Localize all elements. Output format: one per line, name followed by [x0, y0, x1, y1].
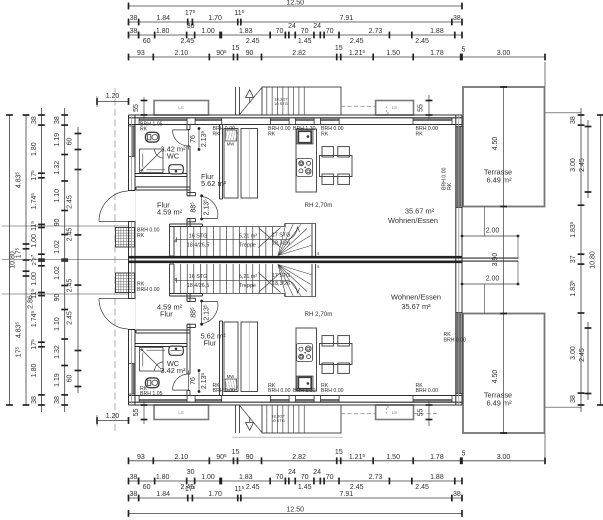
- svg-text:Flur: Flur: [204, 339, 217, 348]
- dim 12.50 bottom: [129, 513, 463, 515]
- left chain C: [25, 115, 27, 405]
- svg-text:60: 60: [143, 38, 151, 45]
- dim 76 / 2.13 upper: [198, 129, 200, 150]
- entrance opening cutouts: [128, 191, 136, 221]
- svg-text:LS: LS: [392, 105, 398, 110]
- svg-text:6.49 m²: 6.49 m²: [486, 399, 512, 408]
- svg-text:55: 55: [133, 409, 140, 417]
- svg-text:2.45: 2.45: [579, 158, 586, 172]
- svg-text:24: 24: [313, 469, 321, 476]
- svg-text:38: 38: [570, 395, 577, 403]
- dim 55 top-right: [428, 95, 430, 119]
- svg-text:4.50: 4.50: [492, 137, 499, 151]
- svg-text:16 STG: 16 STG: [189, 274, 208, 280]
- svg-text:2.45: 2.45: [350, 484, 364, 491]
- svg-text:90: 90: [54, 294, 61, 302]
- svg-text:1.20: 1.20: [106, 413, 120, 420]
- svg-text:1.83: 1.83: [239, 28, 253, 35]
- svg-text:1.20: 1.20: [106, 93, 120, 100]
- terrace dim line: [503, 87, 505, 433]
- svg-text:38: 38: [130, 491, 138, 498]
- bottom wall faces: [129, 404, 463, 406]
- svg-text:5: 5: [462, 450, 466, 457]
- right chain E2: [587, 120, 589, 198]
- svg-text:70: 70: [276, 474, 284, 481]
- svg-text:17 STG: 17 STG: [272, 233, 291, 239]
- svg-text:1.32: 1.32: [54, 161, 61, 175]
- svg-text:3.00: 3.00: [570, 346, 577, 360]
- svg-text:BRH 0.00: BRH 0.00: [321, 388, 344, 394]
- svg-text:38: 38: [31, 116, 38, 124]
- svg-text:1.00: 1.00: [31, 272, 38, 286]
- svg-text:38: 38: [570, 116, 577, 124]
- svg-text:2.45: 2.45: [350, 38, 364, 45]
- svg-text:RH 2,70m: RH 2,70m: [305, 202, 333, 209]
- eaves dashed line bottom extra: [414, 413, 439, 415]
- svg-text:60: 60: [67, 138, 74, 146]
- svg-text:10 STG: 10 STG: [271, 418, 285, 423]
- apron line below exterior stair: [232, 436, 343, 438]
- svg-text:RK: RK: [447, 182, 453, 190]
- dim 12.50 top: [129, 5, 463, 7]
- svg-text:1.80: 1.80: [31, 363, 38, 377]
- svg-text:2.45: 2.45: [246, 484, 260, 491]
- svg-text:4.50: 4.50: [492, 370, 499, 384]
- dim chain top row3: [129, 34, 463, 36]
- svg-text:1.80: 1.80: [156, 474, 170, 481]
- svg-text:18,3/26: 18,3/26: [272, 281, 290, 287]
- svg-text:2.45: 2.45: [415, 484, 429, 491]
- dim chain bottom row2 lower: [138, 478, 140, 485]
- svg-text:BRH 0.00: BRH 0.00: [444, 338, 467, 344]
- svg-text:MW: MW: [227, 142, 234, 147]
- svg-text:3.42 m²: 3.42 m²: [160, 366, 186, 375]
- dimension block left: [2, 108, 129, 412]
- svg-text:7.91: 7.91: [340, 491, 354, 498]
- svg-text:38: 38: [453, 491, 461, 498]
- right chain E: [580, 108, 582, 412]
- dimension block right: [545, 108, 603, 412]
- svg-text:1.50: 1.50: [386, 454, 400, 461]
- svg-text:BRH 0.00: BRH 0.00: [416, 388, 439, 394]
- svg-text:3.00: 3.00: [497, 454, 511, 461]
- svg-text:76: 76: [190, 135, 197, 143]
- svg-text:Flur: Flur: [160, 310, 173, 319]
- svg-text:30: 30: [187, 23, 195, 30]
- svg-text:BRH 0.00: BRH 0.00: [268, 388, 291, 394]
- svg-text:15: 15: [232, 45, 240, 52]
- svg-text:2.45: 2.45: [579, 348, 586, 362]
- dimension block top: [129, 0, 546, 87]
- svg-text:2.00: 2.00: [486, 275, 500, 282]
- svg-text:10 STG: 10 STG: [274, 101, 288, 106]
- dim 55 bottom-left: [143, 401, 145, 424]
- unit 1 geometry: [99, 87, 545, 259]
- dim 55 bottom-right: [428, 401, 430, 426]
- svg-text:17 STG: 17 STG: [272, 273, 291, 279]
- svg-text:2.82: 2.82: [292, 50, 306, 57]
- svg-text:1.80: 1.80: [31, 142, 38, 156]
- dim 76 / 2.13 lower: [198, 371, 200, 392]
- left chain A: [64, 108, 66, 412]
- svg-text:70: 70: [276, 28, 284, 35]
- svg-text:RK: RK: [213, 131, 221, 137]
- svg-text:2.45: 2.45: [415, 38, 429, 45]
- left chain B: [41, 108, 43, 412]
- svg-text:1.83: 1.83: [239, 474, 253, 481]
- svg-text:Wohnen/Essen: Wohnen/Essen: [391, 293, 441, 302]
- dim 1.20 top: [97, 101, 129, 103]
- dim 3.00 terrace top: [544, 54, 546, 61]
- left wall: [128, 115, 130, 405]
- svg-text:3.90: 3.90: [492, 253, 499, 267]
- svg-text:12.50: 12.50: [286, 0, 304, 7]
- svg-text:76: 76: [190, 377, 197, 385]
- svg-text:1.45: 1.45: [298, 38, 312, 45]
- svg-text:1.70: 1.70: [208, 491, 222, 498]
- left extension lines: [2, 225, 129, 227]
- dim 1.20 bottom: [97, 420, 129, 422]
- svg-text:4.59 m²: 4.59 m²: [157, 208, 183, 217]
- dim chain top row2: [129, 21, 463, 23]
- svg-text:15: 15: [335, 449, 343, 456]
- svg-text:1.19: 1.19: [54, 133, 61, 147]
- svg-text:5: 5: [462, 47, 466, 54]
- svg-text:38: 38: [453, 15, 461, 22]
- svg-text:LS: LS: [178, 105, 184, 110]
- svg-text:5.62 m²: 5.62 m²: [201, 179, 227, 188]
- svg-text:WC: WC: [167, 152, 180, 161]
- svg-text:1.78: 1.78: [430, 454, 444, 461]
- svg-text:24: 24: [313, 23, 321, 30]
- svg-text:2.45: 2.45: [67, 228, 74, 242]
- svg-text:BRH 1.30: BRH 1.30: [293, 388, 316, 394]
- svg-text:24: 24: [288, 469, 296, 476]
- svg-text:18,4/26,5: 18,4/26,5: [187, 243, 209, 249]
- svg-text:38: 38: [130, 28, 138, 35]
- svg-text:2.45: 2.45: [181, 38, 195, 45]
- svg-text:2.10: 2.10: [175, 454, 189, 461]
- svg-text:24: 24: [288, 23, 296, 30]
- svg-text:55: 55: [133, 104, 140, 112]
- party wall: [129, 256, 463, 259]
- dim chain bottom row1: [129, 460, 546, 462]
- svg-text:90: 90: [54, 219, 61, 227]
- svg-text:60: 60: [67, 375, 74, 383]
- svg-text:RK: RK: [137, 233, 145, 239]
- dim 10.80 left: [9, 115, 11, 405]
- svg-text:1.02: 1.02: [54, 266, 61, 280]
- svg-text:38: 38: [130, 474, 138, 481]
- entrance jambs: [129, 190, 136, 192]
- svg-text:1.10: 1.10: [54, 317, 61, 331]
- east wall: [455, 115, 457, 405]
- svg-text:2.00: 2.00: [486, 227, 500, 234]
- svg-text:1.50: 1.50: [386, 50, 400, 57]
- svg-text:18,4/26,5: 18,4/26,5: [187, 283, 209, 289]
- dim 88 / 2.13 upper: [201, 196, 203, 219]
- right extension lines: [545, 112, 582, 114]
- svg-text:1.70: 1.70: [208, 15, 222, 22]
- svg-text:RK: RK: [268, 131, 276, 137]
- right chain 10.80: [600, 115, 602, 405]
- svg-text:30: 30: [187, 469, 195, 476]
- svg-text:38: 38: [54, 116, 61, 124]
- svg-text:1.00: 1.00: [31, 234, 38, 248]
- svg-text:93: 93: [137, 454, 145, 461]
- svg-text:LS: LS: [392, 410, 398, 415]
- svg-text:Wohnen/Essen: Wohnen/Essen: [388, 216, 438, 225]
- svg-text:RH 2,70m: RH 2,70m: [305, 311, 333, 318]
- svg-text:2.45: 2.45: [67, 279, 74, 293]
- svg-text:BRH 1.05: BRH 1.05: [140, 391, 163, 397]
- svg-text:5,21 m²: 5,21 m²: [239, 234, 257, 240]
- svg-text:15: 15: [335, 45, 343, 52]
- svg-text:RK: RK: [321, 131, 329, 137]
- dim chain bottom row2: [129, 480, 463, 482]
- svg-text:BRH 0.00: BRH 0.00: [137, 287, 160, 293]
- svg-text:70: 70: [326, 474, 334, 481]
- svg-text:10.80: 10.80: [590, 251, 597, 269]
- svg-text:RK: RK: [416, 131, 424, 137]
- svg-text:5,21 m²: 5,21 m²: [239, 274, 257, 280]
- svg-text:35.67 m²: 35.67 m²: [405, 207, 435, 216]
- svg-text:BRH 1.30: BRH 1.30: [293, 126, 316, 132]
- svg-text:15: 15: [232, 449, 240, 456]
- dim 3.00 terrace bottom: [544, 457, 546, 464]
- svg-text:Treppe: Treppe: [239, 243, 256, 249]
- svg-text:12.50: 12.50: [286, 507, 304, 514]
- svg-text:Treppe: Treppe: [239, 283, 256, 289]
- dim chain bottom row3: [129, 497, 463, 499]
- svg-text:2.45: 2.45: [246, 38, 260, 45]
- svg-text:1.00: 1.00: [201, 28, 215, 35]
- party wall terrace extension: [462, 257, 518, 259]
- svg-text:1.88: 1.88: [430, 474, 444, 481]
- svg-text:70: 70: [326, 28, 334, 35]
- svg-text:16 STG: 16 STG: [189, 234, 208, 240]
- svg-text:90: 90: [246, 454, 254, 461]
- svg-text:MW: MW: [227, 374, 234, 379]
- svg-text:BRH 0.00: BRH 0.00: [213, 388, 236, 394]
- svg-text:37: 37: [570, 255, 577, 263]
- svg-text:2.82: 2.82: [292, 454, 306, 461]
- svg-text:1.32: 1.32: [54, 345, 61, 359]
- svg-text:1.80: 1.80: [156, 28, 170, 35]
- dim chain top row4: [129, 56, 546, 58]
- svg-text:1.78: 1.78: [430, 50, 444, 57]
- svg-text:1.00: 1.00: [201, 474, 215, 481]
- svg-text:90: 90: [246, 50, 254, 57]
- svg-text:3.00: 3.00: [570, 158, 577, 172]
- left chain A2: [77, 127, 79, 393]
- svg-text:70: 70: [301, 28, 309, 35]
- svg-text:7.91: 7.91: [340, 15, 354, 22]
- dim 88 / 2.13 lower: [201, 301, 203, 324]
- svg-text:2.45: 2.45: [67, 195, 74, 209]
- svg-text:2.10: 2.10: [175, 50, 189, 57]
- top wall faces: [129, 117, 463, 119]
- svg-text:2.45: 2.45: [67, 311, 74, 325]
- svg-text:70: 70: [301, 474, 309, 481]
- property axis dashed line: [114, 88, 116, 432]
- unit 2 geometry (mirrored): [99, 261, 545, 433]
- svg-text:1.88: 1.88: [430, 28, 444, 35]
- svg-text:LS: LS: [178, 410, 184, 415]
- svg-text:60: 60: [143, 484, 151, 491]
- svg-text:1.19: 1.19: [54, 373, 61, 387]
- svg-text:1.84: 1.84: [156, 491, 170, 498]
- svg-text:3.00: 3.00: [497, 50, 511, 57]
- svg-text:38: 38: [31, 396, 38, 404]
- svg-text:RK: RK: [140, 127, 148, 133]
- svg-text:35.67 m²: 35.67 m²: [401, 302, 431, 311]
- dim chain top row3 lower: [138, 32, 140, 39]
- top wall outer line: [129, 114, 463, 116]
- svg-text:1.45: 1.45: [298, 484, 312, 491]
- svg-text:1.10: 1.10: [54, 189, 61, 203]
- svg-text:2.73: 2.73: [369, 28, 383, 35]
- svg-text:6.49 m²: 6.49 m²: [486, 176, 512, 185]
- dimension block bottom: [129, 433, 546, 517]
- svg-text:1.02: 1.02: [54, 240, 61, 254]
- svg-text:55: 55: [418, 409, 425, 417]
- dim 55 top-left: [143, 97, 145, 119]
- svg-text:55: 55: [418, 104, 425, 112]
- svg-text:2.73: 2.73: [369, 474, 383, 481]
- svg-text:18,3/26: 18,3/26: [272, 241, 290, 247]
- svg-text:93: 93: [137, 50, 145, 57]
- svg-text:38: 38: [54, 396, 61, 404]
- svg-text:38: 38: [130, 15, 138, 22]
- svg-text:1.84: 1.84: [156, 15, 170, 22]
